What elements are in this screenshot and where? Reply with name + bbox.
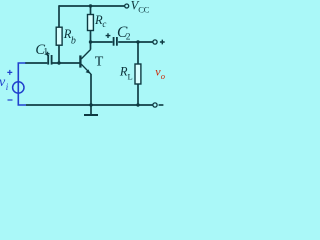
svg-text:1: 1 [43, 47, 48, 58]
svg-text:T: T [95, 55, 104, 70]
svg-text:c: c [102, 19, 106, 29]
svg-text:o: o [161, 71, 165, 81]
svg-text:2: 2 [126, 33, 131, 43]
svg-text:b: b [71, 36, 76, 47]
svg-text:CC: CC [138, 4, 149, 14]
svg-text:L: L [128, 72, 133, 82]
